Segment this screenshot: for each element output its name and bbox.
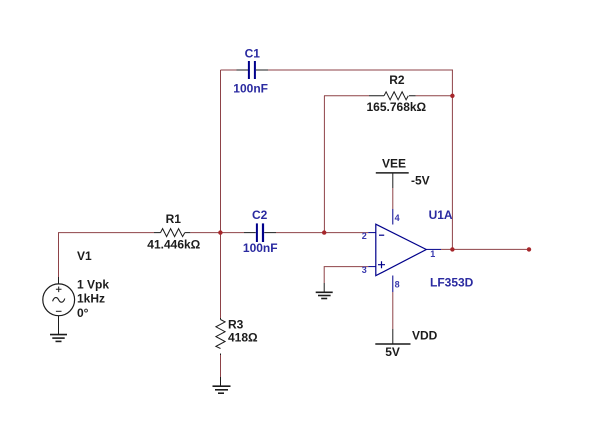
resistor R1	[154, 229, 190, 237]
capacitor C1	[237, 61, 269, 79]
wire: R2 left branch vertical	[323, 96, 325, 233]
wire: vertical net C1-left / R1-node / R3	[220, 70, 222, 318]
wire: pin 8 to VDD	[392, 292, 394, 329]
wire: pin 4 to VEE	[392, 188, 394, 209]
wire: V1 top to main input net	[59, 233, 155, 277]
svg-text:3: 3	[362, 265, 367, 275]
wire: R3 top lead wire	[220, 317, 222, 320]
power VDD bar	[375, 329, 410, 344]
wire: C2 right to inverting node	[276, 232, 324, 234]
svg-text:V1: V1	[77, 249, 92, 263]
ground (R3)	[213, 377, 231, 393]
capacitor C2	[244, 223, 276, 242]
svg-text:4: 4	[395, 213, 400, 223]
resistor R2	[369, 92, 416, 100]
svg-text:100nF: 100nF	[233, 82, 268, 96]
wire: right vertical net (C1/R2 to output)	[451, 70, 453, 250]
wire: R1 right to C2 left (through node)	[190, 232, 244, 234]
wire: R2 right to right vertical net	[416, 95, 453, 97]
pin 2 stub	[368, 232, 376, 234]
svg-text:100nF: 100nF	[243, 241, 278, 255]
svg-text:C1: C1	[245, 47, 261, 61]
wire: C1 right to top-right corner	[268, 69, 453, 71]
pin 3 stub	[368, 266, 376, 268]
minus input marker	[379, 234, 384, 236]
svg-text:0°: 0°	[77, 306, 89, 320]
power VEE bar	[376, 173, 409, 188]
svg-text:VDD: VDD	[412, 328, 438, 342]
svg-text:41.446kΩ: 41.446kΩ	[147, 238, 200, 252]
junction node R1/C1/R3	[218, 230, 222, 234]
svg-text:R3: R3	[228, 318, 244, 332]
wire: R2 left horizontal	[324, 95, 369, 97]
svg-text:2: 2	[362, 231, 367, 241]
ground (V1)	[50, 335, 67, 342]
junction node R2 right	[450, 94, 454, 98]
node: output endpoint	[527, 247, 531, 251]
wire: non-inverting pin 3 to ground branch	[324, 267, 368, 283]
wire: top net left segment to C1	[221, 69, 237, 71]
svg-text:5V: 5V	[385, 345, 400, 359]
plus input marker	[378, 261, 385, 268]
svg-text:U1A: U1A	[429, 208, 453, 222]
svg-text:VEE: VEE	[382, 157, 406, 171]
ground (op-amp non-inverting input)	[316, 283, 333, 299]
svg-text:R2: R2	[389, 73, 405, 87]
svg-text:C2: C2	[252, 208, 268, 222]
pin 1 output stub	[426, 248, 441, 250]
svg-text:1kHz: 1kHz	[77, 292, 105, 306]
wire: op-amp output net	[441, 248, 529, 250]
wire: inverting node to op-amp pin 2	[324, 232, 368, 234]
svg-text:1: 1	[430, 249, 435, 259]
junction node C2/R2/pin2	[322, 230, 326, 234]
junction node output	[450, 247, 454, 251]
voltage source V1	[43, 277, 75, 334]
svg-text:R1: R1	[166, 212, 182, 226]
svg-text:165.768kΩ: 165.768kΩ	[367, 100, 427, 114]
op-amp U1A triangle	[376, 224, 427, 276]
svg-text:LF353D: LF353D	[430, 275, 474, 289]
svg-text:418Ω: 418Ω	[228, 331, 258, 345]
svg-text:1 Vpk: 1 Vpk	[77, 278, 109, 292]
wire: R3 bottom to ground	[220, 355, 222, 377]
pin 4 stub	[392, 209, 394, 225]
svg-text:-5V: -5V	[411, 173, 430, 187]
svg-text:8: 8	[395, 279, 400, 289]
resistor R3	[216, 318, 225, 355]
pin 8 stub	[392, 276, 394, 293]
